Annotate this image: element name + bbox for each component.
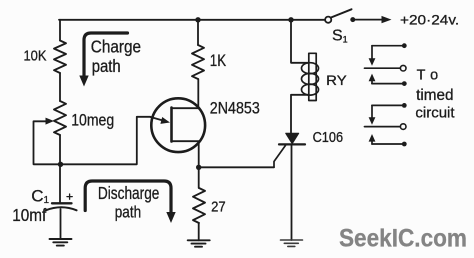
wire wiper return [34, 121, 61, 164]
relay contact 2 fixed [365, 124, 407, 130]
charge path arrow [79, 33, 127, 87]
wire node to emitter [61, 117, 151, 165]
svg-text:RY: RY [326, 72, 347, 88]
thyristor C106 [274, 133, 305, 167]
capacitor C1 10mf [46, 203, 77, 210]
wire 27 to ground [198, 223, 200, 240]
capacitor C1 polarity plus [67, 194, 72, 199]
svg-text:Discharge: Discharge [98, 183, 159, 203]
resistor R1 10K [54, 41, 66, 74]
svg-text:10K: 10K [24, 48, 47, 65]
wire node to 27 [198, 167, 200, 188]
relay contact 1 lower [369, 74, 407, 86]
svg-text:27: 27 [211, 199, 226, 215]
resistor R3 1K [192, 45, 204, 79]
wire cathode to ground [291, 144, 293, 240]
ground under C106 [281, 240, 303, 246]
wire rail to relay coil [291, 20, 309, 63]
wire 1K to transistor base2 [197, 79, 199, 108]
svg-text:10mf: 10mf [12, 205, 46, 225]
svg-text:SeekIC.com: SeekIC.com [339, 225, 467, 253]
svg-text:Charge: Charge [91, 36, 141, 56]
svg-text:+20·24v.: +20·24v. [400, 11, 459, 27]
svg-text:10meg: 10meg [71, 111, 114, 130]
wire 10K to potentiometer [59, 73, 61, 101]
relay contact 1 armature [369, 43, 407, 66]
relay contact 2 lower [369, 134, 407, 146]
svg-text:circuit: circuit [415, 105, 455, 122]
ground under 27 [188, 240, 210, 246]
node relay rail junction [288, 17, 293, 22]
svg-text:C106: C106 [313, 130, 344, 146]
wire capacitor to ground [60, 209, 62, 239]
svg-text:path: path [115, 204, 141, 222]
wire left branch top [59, 20, 61, 41]
node 1K rail junction [195, 17, 200, 22]
svg-text:1K: 1K [210, 51, 226, 70]
wire base1 to gate node [198, 141, 200, 167]
resistor R4 27 [193, 188, 205, 223]
transistor Q1 2N4853 [151, 98, 206, 152]
switch S1 [325, 9, 355, 22]
potentiometer R2 10meg [34, 101, 66, 135]
label To timed circuit [415, 68, 455, 122]
wire potentiometer to capacitor [59, 135, 61, 203]
discharge path arrow [85, 181, 176, 223]
svg-text:timed: timed [416, 87, 453, 104]
wire rail to 1K [197, 20, 199, 45]
label Discharge path [98, 183, 159, 222]
node discharge junction [58, 162, 63, 167]
ground under C1 [50, 239, 72, 246]
wire relay coil to thyristor anode [291, 95, 309, 134]
supply arrow [353, 16, 392, 23]
label Charge path [91, 36, 141, 76]
svg-text:path: path [92, 56, 121, 76]
relay coil RY [302, 53, 319, 100]
relay contact 1 fixed [365, 65, 407, 71]
wire top supply rail [59, 19, 325, 21]
wire gate line [199, 166, 274, 168]
relay contact 2 armature [369, 103, 407, 125]
node gate junction [196, 165, 201, 170]
svg-text:2N4853: 2N4853 [210, 99, 260, 118]
